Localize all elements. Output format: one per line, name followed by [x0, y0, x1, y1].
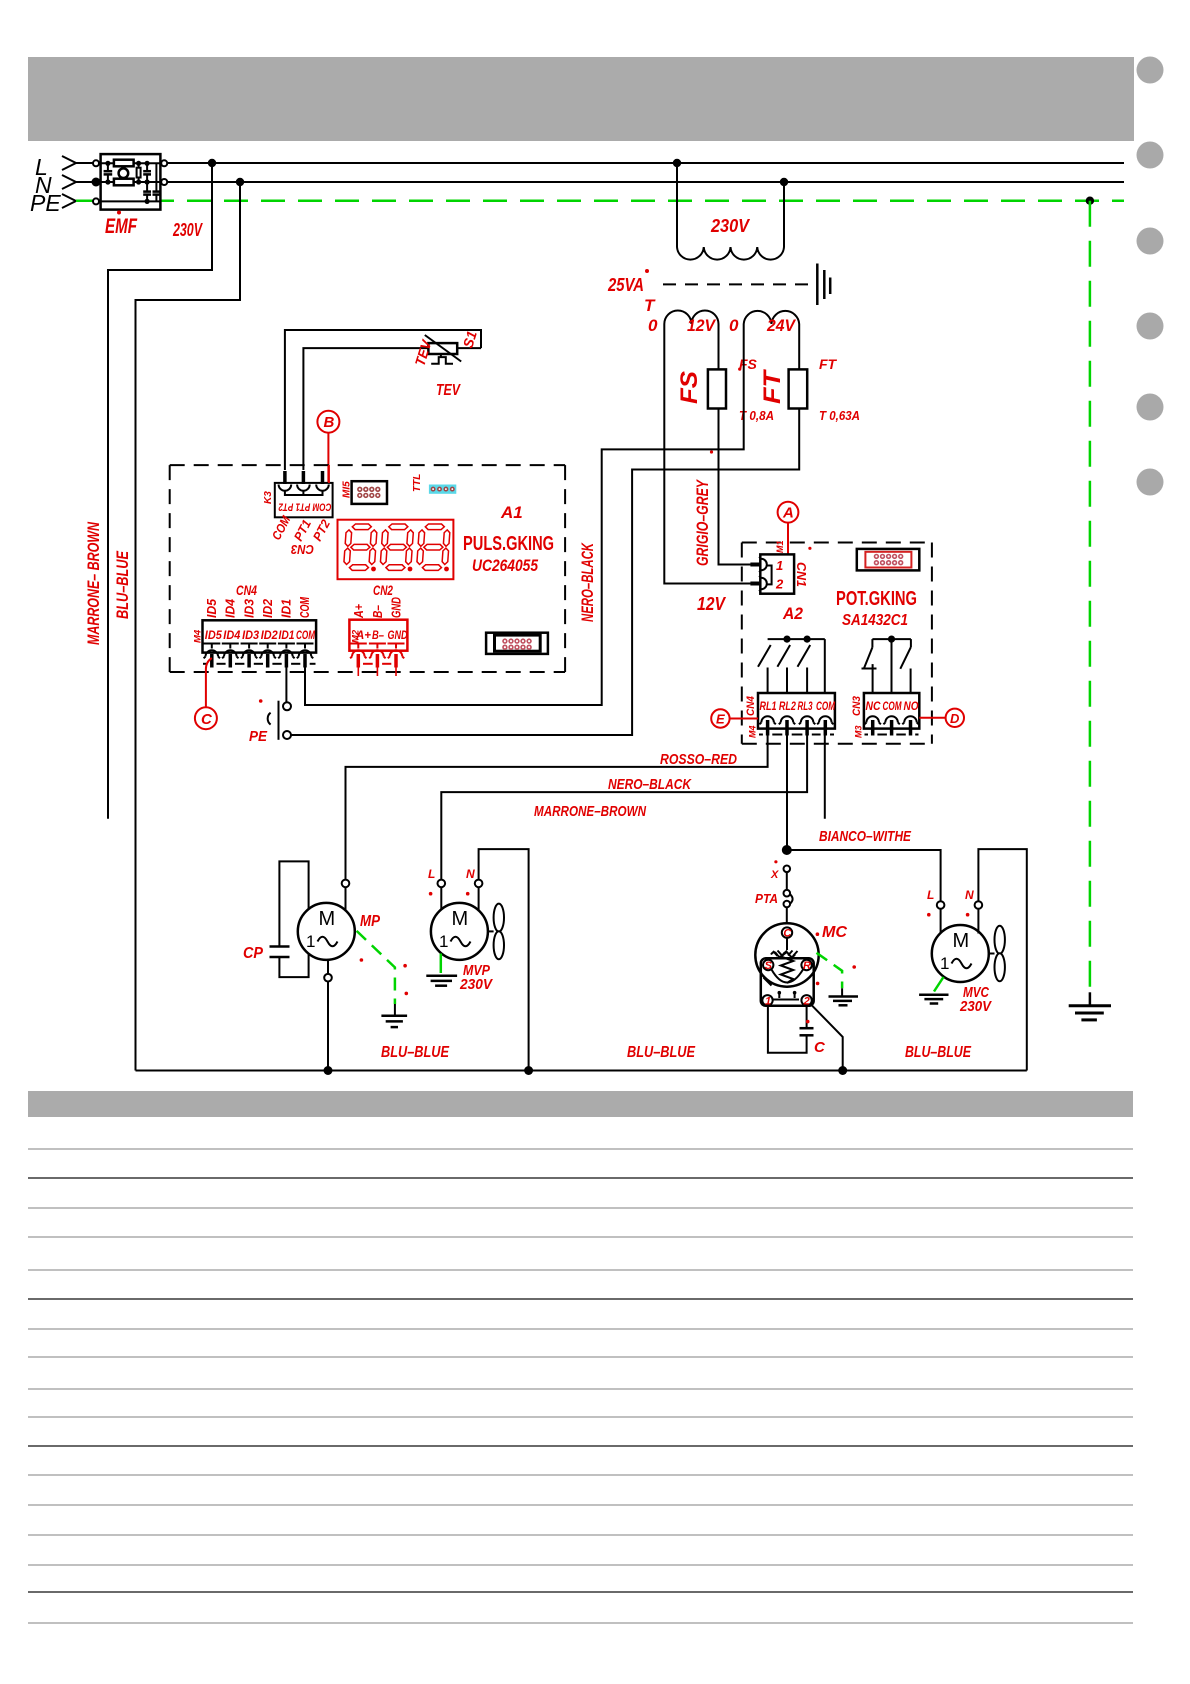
svg-text:BLU–BLUE: BLU–BLUE — [627, 1044, 696, 1061]
svg-text:0: 0 — [648, 316, 658, 335]
compressor branch: X contact — [784, 866, 791, 873]
relay contacts RL1 RL2 RL3 — [758, 639, 825, 693]
svg-text:RL3: RL3 — [798, 701, 813, 713]
red wire B to PT2 — [328, 465, 330, 483]
junction L-transformer — [673, 159, 681, 167]
svg-text:1: 1 — [439, 932, 448, 951]
wire 24V through FT to PE plug — [291, 324, 799, 735]
svg-text:D: D — [950, 711, 960, 726]
svg-text:A1: A1 — [500, 503, 523, 522]
svg-text:MARRONE–BROWN: MARRONE–BROWN — [534, 803, 647, 820]
svg-text:230V: 230V — [172, 220, 203, 240]
wire BIANCO to MVC — [787, 850, 941, 901]
PE plug connector — [249, 699, 291, 745]
junction MC rail — [838, 1066, 847, 1075]
svg-text:SA1432C1: SA1432C1 — [842, 612, 908, 629]
binder hole circles — [1137, 57, 1164, 496]
node C — [195, 707, 217, 729]
junction BIANCO — [782, 845, 792, 855]
svg-text:COM PT1 PT2: COM PT1 PT2 — [279, 501, 332, 513]
table rule lines — [28, 1149, 1133, 1623]
svg-text:B: B — [324, 414, 335, 431]
svg-text:T: T — [644, 296, 656, 315]
fuse FS — [708, 369, 726, 408]
EMF label — [117, 211, 121, 215]
wire 24V-0 to A1 CN4 COM — [305, 324, 744, 705]
relay contacts NC/NO — [862, 639, 911, 693]
svg-text:CN3: CN3 — [290, 542, 314, 557]
svg-text:12V: 12V — [697, 594, 727, 614]
svg-text:EMF: EMF — [105, 215, 138, 238]
svg-text:S: S — [765, 960, 773, 972]
svg-text:A+: A+ — [355, 628, 371, 642]
CN4 pin hooks — [203, 644, 220, 668]
wire PE green dashed vertical — [1089, 201, 1092, 993]
PE ground symbol — [1069, 992, 1111, 1020]
svg-text:NERO–BLACK: NERO–BLACK — [579, 542, 597, 622]
transformer core dashed — [663, 283, 816, 285]
node L — [35, 154, 76, 180]
svg-text:E: E — [716, 712, 725, 727]
svg-text:NO: NO — [904, 701, 919, 713]
svg-text:X: X — [770, 869, 779, 881]
svg-text:CN4: CN4 — [236, 582, 257, 598]
svg-text:N: N — [466, 867, 475, 881]
transformer T primary — [677, 163, 784, 260]
svg-text:ID1: ID1 — [279, 599, 294, 618]
svg-text:ROSSO–RED: ROSSO–RED — [660, 751, 737, 768]
svg-text:ID3: ID3 — [242, 628, 259, 642]
svg-text:B–: B– — [372, 628, 384, 642]
svg-text:PE: PE — [249, 728, 268, 745]
wire RL3 to MVP (nero) — [441, 736, 807, 880]
svg-text:ID2: ID2 — [261, 628, 278, 642]
motor MVC — [932, 849, 1027, 1070]
svg-text:M: M — [319, 908, 336, 930]
wire ID1 to PE plug — [285, 655, 287, 702]
junction L-EMF branch — [208, 159, 216, 167]
svg-text:N: N — [965, 888, 974, 902]
wire N line — [76, 181, 1124, 183]
svg-text:NC: NC — [866, 701, 882, 713]
transformer secondary 12V winding — [664, 310, 718, 324]
svg-text:RL1: RL1 — [760, 701, 777, 713]
svg-text:230V: 230V — [459, 976, 494, 993]
svg-text:FS: FS — [739, 356, 758, 372]
wire PE green dashed — [76, 199, 1124, 202]
svg-text:UC264055: UC264055 — [472, 556, 538, 575]
MP ground — [381, 1004, 407, 1027]
svg-text:1: 1 — [306, 932, 315, 951]
MC ground — [829, 988, 859, 1005]
svg-text:ID1: ID1 — [279, 628, 295, 642]
svg-text:K3: K3 — [263, 491, 274, 504]
svg-text:T 0,63A: T 0,63A — [819, 408, 860, 423]
wire L line — [76, 162, 1124, 164]
svg-text:25VA: 25VA — [607, 275, 644, 295]
capacitor CP — [270, 861, 309, 977]
svg-text:12V: 12V — [687, 316, 717, 335]
svg-text:ID5: ID5 — [204, 598, 219, 618]
svg-text:M3: M3 — [854, 725, 864, 738]
bottom gray band — [28, 1091, 1133, 1117]
wire PTA to MC — [786, 907, 788, 927]
connector CN3 / M3 on A2 — [851, 693, 919, 738]
svg-text:COM: COM — [883, 701, 902, 713]
svg-text:BLU–BLUE: BLU–BLUE — [113, 551, 132, 619]
motor MVP — [431, 849, 529, 1070]
connector CN4 / M4 on A1 — [193, 582, 317, 653]
svg-text:MARRONE– BROWN: MARRONE– BROWN — [84, 521, 103, 645]
svg-text:CN3: CN3 — [851, 696, 863, 716]
svg-text:MP: MP — [360, 913, 380, 930]
svg-text:R: R — [803, 960, 811, 972]
wire 12V through FS to CN1 pin1 — [719, 324, 751, 565]
svg-text:M4: M4 — [193, 629, 204, 643]
svg-text:GRIGIO–GREY: GRIGIO–GREY — [694, 479, 712, 566]
junction N-EMF branch — [236, 178, 244, 186]
svg-text:1: 1 — [776, 558, 783, 573]
svg-text:FS: FS — [676, 371, 703, 404]
connector TTL highlighted — [429, 485, 456, 494]
svg-text:COM: COM — [297, 596, 312, 618]
bottom rail wire — [136, 1070, 1027, 1072]
svg-text:24V: 24V — [766, 316, 796, 335]
run capacitor C — [768, 1006, 814, 1053]
wire MC 2 to rail — [810, 1004, 843, 1071]
svg-text:2: 2 — [775, 577, 784, 592]
7-segment display CN2 — [338, 520, 454, 580]
svg-text:BIANCO–WITHE: BIANCO–WITHE — [819, 828, 912, 845]
connector M2 (CN2) red — [349, 597, 407, 676]
connector CN1 on A2 — [743, 540, 794, 593]
svg-text:GND: GND — [388, 628, 408, 642]
board A1 dashed outline — [170, 465, 565, 672]
svg-text:C: C — [201, 711, 213, 728]
MVC green earth + ground — [934, 977, 944, 992]
svg-text:FT: FT — [819, 356, 838, 372]
svg-text:GND: GND — [389, 597, 404, 618]
wire ID5 to C (red) — [206, 658, 212, 707]
svg-text:CP: CP — [243, 945, 263, 962]
connector MI5 — [352, 481, 387, 504]
MC green earth wire — [817, 953, 843, 989]
svg-text:CN1: CN1 — [794, 562, 809, 587]
node E — [711, 709, 758, 727]
svg-text:BLU–BLUE: BLU–BLUE — [905, 1044, 972, 1061]
svg-text:L: L — [927, 888, 934, 902]
svg-text:M1: M1 — [775, 540, 785, 553]
connector A2 top-right — [857, 549, 920, 571]
thermostat S1/TEV body — [425, 335, 461, 364]
CN4 pin row dashes — [203, 663, 316, 665]
MVP green earth + ground — [440, 954, 443, 974]
svg-text:MC: MC — [822, 924, 847, 941]
svg-text:A+: A+ — [351, 604, 366, 619]
svg-text:POT.GKING: POT.GKING — [836, 588, 917, 610]
svg-text:ID4: ID4 — [223, 628, 240, 642]
wire TEV upper loop — [285, 330, 481, 470]
connector K3 (CN3) on A1 — [275, 471, 333, 517]
node PE — [30, 190, 76, 216]
connector CN4 / M4 on A2 — [745, 693, 835, 738]
fuse FT — [789, 369, 808, 408]
svg-text:ID2: ID2 — [260, 598, 275, 618]
wire blue from N down left side — [136, 182, 241, 1071]
wire RL2 down to MC junction — [786, 736, 788, 851]
svg-text:A: A — [782, 505, 794, 522]
svg-text:C: C — [814, 1039, 826, 1056]
node D — [919, 709, 964, 727]
svg-text:C: C — [783, 928, 792, 940]
node A — [778, 502, 799, 555]
svg-text:TTL: TTL — [412, 474, 423, 492]
wire brown from L down left side — [108, 163, 212, 819]
svg-text:A2: A2 — [782, 604, 803, 623]
svg-text:M: M — [452, 908, 469, 930]
svg-text:M4: M4 — [748, 725, 758, 738]
svg-text:COM: COM — [816, 701, 835, 713]
svg-text:TEV: TEV — [436, 382, 461, 399]
svg-text:BLU–BLUE: BLU–BLUE — [381, 1044, 450, 1061]
svg-text:COM: COM — [296, 628, 316, 642]
svg-text:RL2: RL2 — [779, 701, 796, 713]
node N — [35, 172, 76, 198]
junction MP rail — [324, 1066, 333, 1075]
PTA protector — [755, 872, 793, 907]
MP green earth wire — [357, 931, 395, 1004]
svg-text:PTA: PTA — [755, 891, 778, 906]
wire TEV lower — [303, 348, 428, 470]
svg-text:MI5: MI5 — [342, 481, 353, 498]
svg-text:ID5: ID5 — [205, 628, 222, 642]
wire 12V-0 to CN1 pin2 — [664, 324, 750, 584]
svg-text:ID3: ID3 — [241, 598, 256, 618]
svg-text:0: 0 — [729, 316, 739, 335]
svg-text:NERO–BLACK: NERO–BLACK — [608, 776, 692, 793]
motor MP — [298, 880, 355, 1071]
svg-text:L: L — [428, 867, 435, 881]
junction MVP rail — [524, 1066, 533, 1075]
svg-text:CN2: CN2 — [373, 582, 393, 598]
top gray band — [28, 57, 1134, 141]
svg-text:M: M — [953, 930, 970, 952]
node B — [317, 411, 339, 483]
junction PE branch — [1086, 197, 1094, 205]
svg-text:PULS.GKING: PULS.GKING — [463, 533, 554, 555]
board A2 dashed outline — [742, 543, 932, 744]
A2 pin hooks — [759, 716, 775, 735]
connector A1 bottom-right — [486, 633, 548, 654]
svg-text:B–: B– — [370, 605, 385, 618]
svg-text:230V: 230V — [710, 216, 751, 236]
svg-text:PE: PE — [30, 190, 61, 216]
EMF filter box — [92, 154, 168, 210]
svg-text:FT: FT — [759, 368, 786, 404]
core ground symbol — [817, 264, 830, 306]
svg-text:230V: 230V — [959, 998, 993, 1015]
wire RL1 to MP (rosso) — [346, 736, 768, 880]
junction N-transformer — [780, 178, 788, 186]
transformer secondary 24V winding — [744, 311, 800, 324]
wire COM-A2 (marrone) — [824, 736, 826, 819]
svg-text:CN4: CN4 — [745, 696, 757, 716]
compressor MC — [755, 923, 818, 1007]
svg-text:1: 1 — [940, 954, 949, 973]
svg-text:ID4: ID4 — [223, 598, 238, 618]
